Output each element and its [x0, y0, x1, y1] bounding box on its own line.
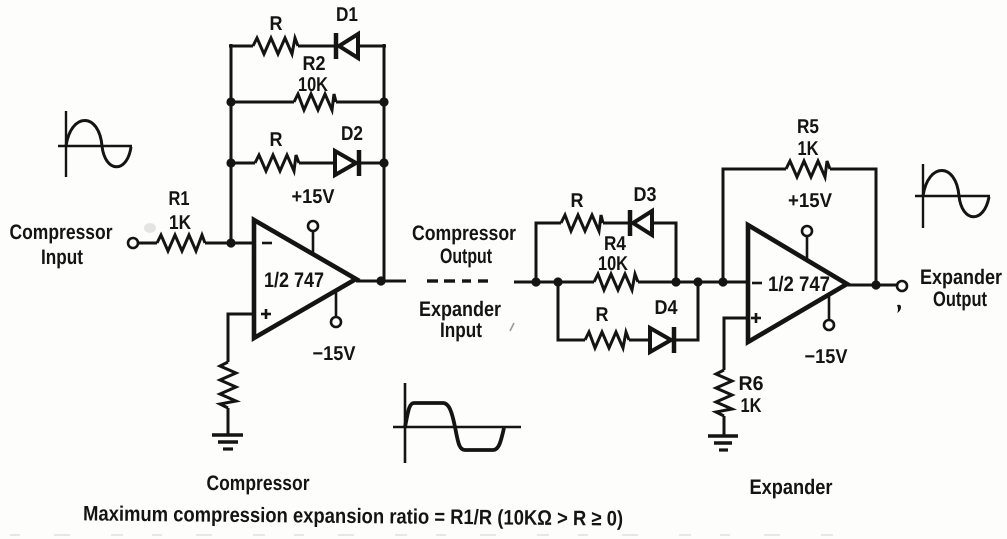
- svg-text:Expander: Expander: [419, 298, 501, 321]
- wire left feedback rail: [230, 44, 233, 243]
- compressor section label: [207, 472, 310, 495]
- resistor R (top branch): [253, 13, 298, 54]
- expander section label: [750, 476, 833, 499]
- expander output label: [920, 266, 1002, 311]
- compressor input label: [10, 221, 113, 269]
- scanner edge streak artifact: [10, 534, 850, 536]
- svg-text:Compressor: Compressor: [10, 221, 113, 244]
- node expander top branch tap: [531, 277, 540, 286]
- op-amp U1 1/2 747: [254, 220, 356, 338]
- svg-text:R5: R5: [797, 116, 819, 138]
- diode D2: [335, 123, 363, 176]
- node compressor output: [376, 276, 385, 285]
- wire non-inverting input (expander): [724, 318, 748, 370]
- op-amp U2 1/2 747: [748, 225, 847, 342]
- -15V terminal (compressor): [313, 290, 357, 365]
- resistor R5 1K: [786, 116, 830, 177]
- resistor R1 1K: [157, 188, 205, 251]
- svg-text:1/2 747: 1/2 747: [768, 273, 830, 296]
- node expander output: [871, 280, 880, 289]
- diode D3: [630, 184, 657, 236]
- node middle branch right: [379, 97, 388, 106]
- ground (compressor): [212, 435, 243, 449]
- resistor R (expander bottom branch): [585, 304, 629, 348]
- node top branch right: [671, 277, 680, 286]
- -15V terminal (expander): [805, 294, 849, 368]
- wire D3 to right rail: [652, 223, 676, 282]
- svg-text:−15V: −15V: [805, 346, 849, 368]
- diode D4: [650, 297, 678, 353]
- slash speck artifact: [510, 323, 514, 331]
- node at inverting input: [226, 238, 235, 247]
- expander output terminal: [897, 281, 907, 291]
- svg-text:1/2 747: 1/2 747: [264, 269, 324, 292]
- svg-text:Expander: Expander: [920, 266, 1002, 289]
- wire non-inverting input: [228, 314, 254, 362]
- svg-text:D1: D1: [336, 4, 358, 26]
- wire R1 to op-amp inverting input: [205, 242, 254, 245]
- svg-text:R4: R4: [604, 233, 627, 255]
- wire resistor to ground: [227, 408, 230, 434]
- wire D2 to right rail: [359, 162, 384, 165]
- wire middle branch left: [231, 101, 294, 104]
- svg-text:D4: D4: [655, 297, 679, 319]
- svg-text:R: R: [270, 13, 283, 35]
- svg-text:Compressor: Compressor: [412, 222, 516, 245]
- svg-text:R: R: [270, 129, 283, 151]
- svg-text:Output: Output: [440, 245, 492, 268]
- wire expander output: [847, 284, 897, 287]
- svg-text:R: R: [596, 304, 609, 326]
- svg-text:Input: Input: [41, 246, 83, 269]
- node bottom branch right: [379, 158, 388, 167]
- comma speck artifact: [897, 305, 901, 313]
- resistor R (expander top branch): [561, 190, 603, 231]
- wire feedback rail up to R5: [723, 169, 786, 282]
- node bottom branch left: [226, 158, 235, 167]
- wire R to D4: [629, 339, 651, 342]
- scan smudge artifact: [144, 223, 156, 233]
- svg-text:R2: R2: [303, 53, 326, 75]
- wire D1 to right rail: [358, 45, 386, 48]
- wire R5 to output rail: [830, 169, 876, 285]
- svg-text:10K: 10K: [298, 74, 328, 96]
- resistor R4 10K: [594, 233, 638, 290]
- svg-text:Compressor: Compressor: [207, 472, 310, 495]
- svg-text:Input: Input: [440, 319, 482, 342]
- wire middle branch right: [336, 101, 384, 104]
- compressor output / expander input labels: [412, 222, 516, 342]
- wire expander top branch left rail: [536, 223, 561, 282]
- resistor (compressor ground leg): [220, 362, 236, 408]
- svg-text:10K: 10K: [598, 253, 628, 275]
- dashed wire (compressor output to expander input): [427, 279, 488, 282]
- caption: maximum compression expansion ratio: [83, 502, 623, 530]
- svg-text:Output: Output: [933, 288, 987, 311]
- wire bottom branch left: [231, 162, 255, 165]
- svg-text:+15V: +15V: [292, 186, 336, 208]
- wire input to R1: [138, 242, 157, 245]
- output sine wave icon: [915, 164, 990, 228]
- resistor R2 10K: [294, 53, 336, 110]
- svg-text:1K: 1K: [798, 138, 819, 160]
- compressor input terminal: [128, 238, 138, 248]
- +15V terminal (compressor): [292, 186, 336, 255]
- svg-text:R6: R6: [739, 373, 764, 395]
- wire top branch left: [229, 45, 253, 48]
- svg-text:R: R: [571, 190, 584, 212]
- input sine wave icon: [58, 111, 132, 177]
- node expander bottom branch tap: [553, 277, 562, 286]
- resistor R6 1K: [716, 370, 764, 417]
- node feedback tap: [718, 277, 727, 286]
- diode D1: [336, 4, 358, 59]
- +15V terminal (expander): [788, 190, 833, 261]
- svg-text:D2: D2: [341, 123, 363, 145]
- compressed waveform icon: [393, 383, 521, 463]
- svg-text:1K: 1K: [169, 212, 191, 234]
- wire expander bottom branch left rail: [558, 282, 585, 340]
- wire R6 to ground: [723, 416, 726, 435]
- wire op-amp output: [356, 280, 406, 283]
- svg-text:−15V: −15V: [313, 343, 357, 365]
- wire R to D2: [299, 162, 336, 165]
- wire expander input: [514, 281, 594, 284]
- wire D4 to right rail: [674, 282, 698, 340]
- node bottom branch right: [693, 277, 702, 286]
- svg-text:D3: D3: [634, 184, 657, 206]
- svg-text:+15V: +15V: [788, 190, 833, 212]
- svg-text:Expander: Expander: [750, 476, 833, 499]
- ground (expander): [708, 436, 738, 450]
- svg-text:R1: R1: [169, 188, 190, 210]
- resistor R (bottom branch): [255, 129, 299, 171]
- wire right feedback rail: [383, 44, 386, 281]
- wire R to D1: [298, 45, 337, 48]
- svg-text:1K: 1K: [741, 395, 762, 417]
- node middle branch left: [226, 97, 235, 106]
- wire R4 to op-amp: [638, 281, 748, 284]
- wire R to D3: [603, 222, 631, 225]
